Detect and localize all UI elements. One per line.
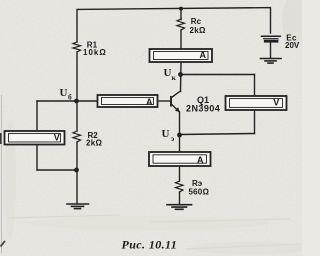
svg-text:Рис. 10.11: Рис. 10.11 (122, 237, 178, 251)
node Ue dot (177, 133, 182, 138)
node Uk dot (178, 72, 183, 77)
voltmeter V2 (right) (226, 96, 287, 110)
svg-text:Rc: Rc (191, 17, 202, 26)
svg-text:20V: 20V (285, 41, 300, 50)
svg-text:U: U (60, 87, 68, 99)
wire left branch down through voltmeter (36, 101, 38, 170)
wire emitter down to ammeter A3 (179, 112, 181, 152)
ground left (67, 204, 89, 209)
wire R1 to node Ub (76, 52, 78, 101)
wire Rc to ammeter A2 (180, 30, 182, 49)
wire top rail (77, 8, 271, 42)
node Ub dot (74, 99, 79, 104)
svg-text:10kΩ: 10kΩ (83, 48, 107, 57)
scan artifact faint smudges (8, 50, 300, 249)
svg-text:к: к (172, 73, 177, 82)
wire battery to ground (270, 43, 272, 59)
resistor R1 zigzag (73, 42, 81, 52)
node junction dot bottom-left (74, 168, 79, 173)
wire Ub down to R2 (76, 101, 78, 131)
svg-text:U: U (162, 128, 170, 140)
svg-text:A: A (146, 97, 153, 107)
wire right branch bottom to node Ue (180, 134, 255, 135)
ground battery (261, 59, 282, 64)
wire ammeter A3 to Re (179, 166, 181, 181)
resistor Re zigzag (176, 181, 184, 192)
wire Re to ground (179, 192, 181, 205)
ammeter A2 (collector) (150, 49, 213, 62)
svg-text:V: V (273, 97, 279, 107)
svg-text:2kΩ: 2kΩ (190, 26, 206, 35)
ground emitter (167, 205, 192, 210)
svg-text:A: A (197, 155, 204, 165)
svg-text:V: V (54, 133, 60, 143)
svg-text:2N3904: 2N3904 (186, 104, 220, 114)
svg-text:2kΩ: 2kΩ (86, 139, 102, 148)
resistor Rc zigzag (177, 19, 185, 30)
wire node Ub left (37, 100, 77, 102)
wire top rail junction stub to Rc (180, 9, 182, 19)
wire base: Ub to ammeter to transistor (77, 100, 99, 102)
svg-text:б: б (68, 92, 72, 101)
node top junction dot (179, 7, 183, 11)
svg-text:A: A (200, 50, 207, 60)
wire right voltmeter branch vertical (254, 75, 256, 134)
svg-text:560Ω: 560Ω (189, 188, 210, 197)
wire node Uk right to voltmeter branch (181, 74, 255, 76)
scan artifact bottom-left dash (1, 241, 6, 247)
voltmeter V1 (left) (5, 131, 65, 145)
wire R2 to ground (76, 142, 78, 204)
resistor R2 zigzag (73, 131, 81, 142)
battery Ec plates (262, 35, 281, 37)
wire collector branch: rail to Rc (180, 18, 182, 21)
wire left branch bottom to junction (37, 169, 77, 171)
ammeter A3 (emitter) (149, 152, 211, 166)
transistor Q1 2N3904 symbol (171, 91, 180, 112)
scan artifact dark dash left of voltmeter (0, 133, 2, 144)
ammeter A1 (base) (98, 95, 158, 107)
svg-text:э: э (171, 134, 174, 143)
wire ammeter A2 to node Uk (180, 62, 183, 92)
svg-text:U: U (164, 67, 172, 79)
scan artifact left edge line (1, 95, 3, 253)
